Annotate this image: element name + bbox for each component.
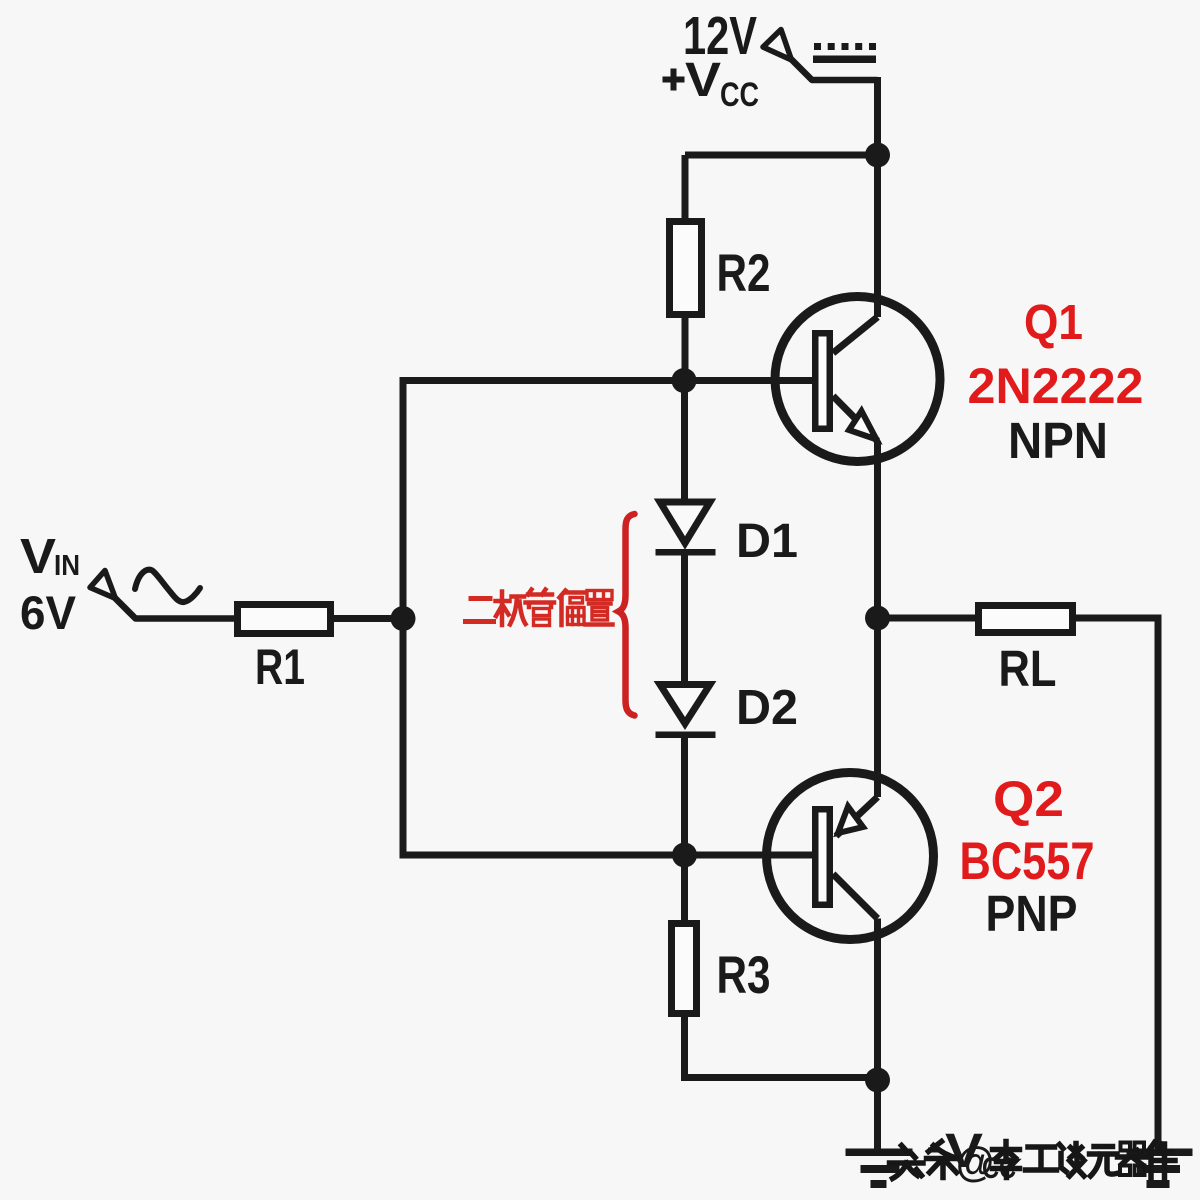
svg-text:R2: R2 — [717, 244, 771, 303]
node bottom junction — [865, 1068, 890, 1093]
node R1 junction — [391, 606, 416, 631]
svg-text:BC557: BC557 — [960, 832, 1095, 891]
transistor Q1 base bar — [815, 333, 830, 429]
resistor R2 — [670, 222, 702, 315]
ground main — [846, 1149, 913, 1189]
svg-text:CC: CC — [720, 76, 759, 114]
transistor Q2 circle — [767, 773, 934, 940]
wire VIN to R1 — [114, 597, 240, 619]
wire output to RL — [878, 615, 979, 622]
resistor R1 — [238, 605, 331, 634]
node output junction — [865, 606, 890, 631]
transistor Q2 emitter arrow — [838, 807, 863, 834]
diode D2 triangle — [660, 685, 710, 724]
brace (red) — [619, 514, 635, 716]
supply rail dashed symbol — [813, 43, 876, 63]
wire Q2 base to R3 — [681, 855, 688, 923]
node Q1 base junction — [672, 368, 697, 393]
wire left rail vertical — [400, 381, 407, 856]
svg-text:PNP: PNP — [986, 885, 1078, 942]
wire VCC vertical to Q1 collector — [874, 77, 881, 317]
label diode bias (red chinese) — [466, 590, 613, 626]
wire R2 bottom — [682, 315, 689, 381]
wire Q2 collector down — [874, 919, 881, 1153]
resistor RL — [979, 606, 1073, 633]
svg-text:2N2222: 2N2222 — [968, 358, 1144, 414]
transistor Q1 emitter arrow — [849, 411, 877, 440]
watermark 头条@李工谈元器件 — [890, 1142, 1176, 1179]
svg-text:V: V — [20, 530, 56, 584]
node Q2 base junction — [672, 843, 697, 868]
input VIN connector triangle — [90, 571, 116, 599]
transistor Q2 emitter diagonal — [836, 797, 878, 836]
svg-text:Q1: Q1 — [1024, 296, 1083, 350]
svg-text:D1: D1 — [736, 515, 798, 568]
wire VCC horizontal to R2 — [685, 152, 878, 159]
svg-text:@: @ — [956, 1138, 994, 1185]
wire R2 top — [682, 155, 689, 221]
wire from 12V connector — [789, 57, 878, 80]
transistor Q2 base bar — [815, 809, 830, 905]
wire R1 to rail — [331, 615, 403, 622]
label -VCC — [928, 1148, 941, 1153]
transistor Q2 collector diagonal — [833, 874, 878, 919]
wire D2 to Q2 base rail — [681, 738, 688, 855]
resistor R3 — [672, 924, 697, 1014]
wire RL to right rail — [1073, 615, 1159, 1153]
wire R3 bottom to node — [681, 1013, 878, 1078]
svg-text:D2: D2 — [736, 681, 798, 735]
diode D2 cathode bar — [656, 732, 716, 739]
svg-text:NPN: NPN — [1008, 412, 1108, 469]
svg-text:6V: 6V — [20, 586, 77, 639]
svg-text:R3: R3 — [717, 946, 771, 1005]
ground right — [1127, 1149, 1193, 1189]
svg-text:IN: IN — [54, 550, 80, 582]
svg-text:RL: RL — [999, 640, 1057, 697]
label +VCC — [663, 69, 685, 91]
wire D1-D2 — [681, 555, 688, 681]
transistor Q1 circle — [775, 297, 940, 462]
sine wave symbol — [135, 570, 200, 603]
svg-text:V: V — [685, 54, 721, 107]
svg-text:Q2: Q2 — [993, 771, 1064, 827]
wire D1 top — [681, 381, 688, 502]
wire Q2 base rail — [400, 852, 813, 859]
transistor Q1 emitter diagonal — [833, 396, 878, 441]
svg-text:R1: R1 — [255, 639, 305, 695]
wire Q1 base rail — [400, 377, 813, 384]
diode D1 cathode bar — [656, 549, 716, 556]
wire Q1 emitter to output node — [874, 441, 881, 797]
node VCC junction — [865, 143, 890, 168]
diode D1 triangle — [660, 502, 710, 543]
12V supply connector triangle — [763, 30, 792, 61]
transistor Q1 collector diagonal — [833, 317, 878, 353]
